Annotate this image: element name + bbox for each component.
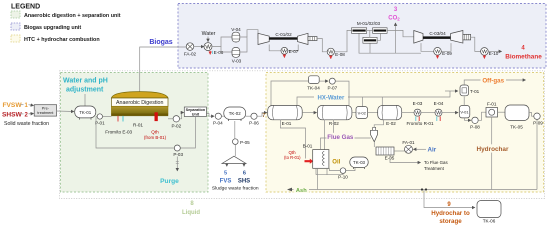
svg-text:FA-01: FA-01 — [402, 140, 415, 145]
blower FA-01 — [402, 140, 415, 153]
wire splitter outlets — [227, 164, 244, 167]
shaft C-03/04 — [423, 31, 451, 39]
vessel V-04 — [231, 27, 241, 42]
wire R-02 to V-02 — [352, 112, 356, 114]
svg-text:LEGEND: LEGEND — [11, 4, 40, 11]
anaerobic digestion + separation unit box — [61, 73, 209, 193]
vessel E-02 — [378, 105, 402, 125]
wire to E-10 — [471, 37, 481, 51]
svg-text:Anaerobic digestion + separati: Anaerobic digestion + separation unit — [24, 13, 121, 19]
reactor R-01 label band — [111, 98, 168, 106]
svg-text:TK-05: TK-05 — [510, 125, 523, 130]
svg-text:P-09: P-09 — [533, 121, 543, 126]
svg-text:Purge: Purge — [160, 178, 179, 185]
heat exchanger E-09 — [434, 48, 453, 59]
wire E-05 to FA-01 — [394, 150, 404, 152]
svg-text:V-04: V-04 — [231, 27, 241, 32]
svg-text:storage: storage — [439, 218, 462, 225]
wire CO2 permeate — [359, 23, 421, 53]
wire ash and bottom manifold — [287, 117, 537, 191]
tank TK-06 — [477, 201, 501, 224]
svg-text:T-01: T-01 — [470, 89, 480, 94]
svg-text:R-01: R-01 — [133, 123, 143, 128]
pump P-10 — [338, 168, 348, 180]
svg-text:Unit: Unit — [192, 113, 200, 117]
svg-text:Anaerobic Digestion: Anaerobic Digestion — [116, 100, 163, 106]
svg-text:Biogas: Biogas — [149, 39, 172, 46]
heat exchanger E-07 — [281, 47, 299, 57]
svg-text:P-01: P-01 — [95, 121, 105, 126]
node Ash — [294, 186, 310, 194]
heat exchanger E-08 — [327, 48, 345, 58]
svg-text:FVSW: FVSW — [3, 102, 23, 109]
svg-text:P-07: P-07 — [327, 85, 337, 90]
node junctions — [421, 188, 427, 190]
node 8 Liquid — [182, 201, 200, 216]
tank TK-02 — [224, 107, 246, 121]
node 4 Biomethane — [505, 46, 542, 61]
svg-text:From/to E-03: From/to E-03 — [105, 130, 132, 135]
svg-text:F-01: F-01 — [487, 102, 497, 107]
svg-text:Hydrochar: Hydrochar — [477, 146, 509, 153]
wire HX-Water loop — [297, 91, 450, 107]
svg-text:treatment: treatment — [37, 111, 54, 115]
expander outlet C-01/02 — [308, 37, 317, 41]
wire P-10 to B-01 — [316, 168, 343, 174]
wire arrow into T-01 — [445, 90, 458, 92]
node Oil — [332, 159, 340, 165]
node Flue Gas — [327, 133, 355, 141]
svg-text:Separation: Separation — [186, 108, 206, 112]
node Biogas — [149, 39, 172, 46]
svg-text:Off-gas: Off-gas — [482, 78, 504, 85]
node R-01 label — [133, 123, 143, 128]
svg-text:E-04: E-04 — [434, 101, 444, 106]
svg-text:Qth: Qth — [151, 130, 159, 135]
wire to membranes — [334, 30, 351, 51]
tank TK-03 — [350, 157, 368, 169]
wire purge — [176, 157, 179, 171]
heat exchanger E-03 — [413, 101, 423, 121]
svg-text:E-03: E-03 — [413, 101, 423, 106]
wire E-01 bottom heat line to B-01 — [280, 120, 305, 159]
node Water — [202, 31, 216, 42]
wire E-01 to R-02 — [302, 112, 316, 114]
wire Air into FA-01 — [414, 148, 427, 150]
svg-text:FVS: FVS — [220, 179, 232, 185]
heat exchanger E-04 — [434, 101, 444, 121]
svg-text:Water and pH: Water and pH — [63, 78, 108, 85]
vessel V-03 — [232, 48, 242, 64]
boiler B-01 — [303, 144, 329, 169]
cyclone — [371, 127, 378, 141]
LEGEND — [11, 4, 121, 44]
wire sep unit to P-04 — [206, 114, 214, 117]
compressor C-03/04 stage 2 — [451, 31, 463, 44]
vessel V-01 — [459, 106, 470, 118]
svg-text:TK-06: TK-06 — [483, 219, 496, 224]
tank TK-05 — [505, 105, 529, 130]
node Water and pH adjustment — [63, 78, 108, 94]
node Air — [428, 147, 437, 154]
svg-text:Air: Air — [428, 147, 437, 154]
pump P-03 — [173, 145, 183, 157]
node SHSW stream 2 — [2, 111, 34, 118]
svg-text:M-01/02/03: M-01/02/03 — [357, 21, 381, 26]
svg-text:Sludge waste fraction: Sludge waste fraction — [212, 185, 259, 191]
outer plant boundary — [60, 71, 545, 199]
wire cyclone top to E-02 bottom — [374, 120, 383, 128]
svg-text:E-10: E-10 — [489, 51, 499, 56]
compressor C-01/02 stage 2 — [298, 33, 309, 44]
wire to E-08 — [317, 39, 327, 52]
svg-text:adjustment: adjustment — [66, 87, 104, 94]
svg-text:E-07: E-07 — [289, 49, 299, 54]
wire flue gas riser — [321, 138, 371, 150]
expander outlet C-03/04 — [463, 34, 471, 40]
heat exchanger E-10 — [481, 48, 499, 59]
filter F-01 — [486, 102, 498, 117]
compressor C-01/02 stage 1 — [258, 33, 269, 44]
node To Flue Gas Treatment — [424, 160, 448, 171]
svg-text:HX-Water: HX-Water — [318, 95, 345, 101]
pump P-06 — [246, 113, 260, 125]
wire TK-03 to P-10 — [346, 167, 355, 170]
svg-text:E-02: E-02 — [386, 121, 396, 126]
svg-text:TK-02: TK-02 — [229, 111, 242, 116]
svg-text:C-03/04: C-03/04 — [429, 31, 446, 36]
wire F-01 to TK-05 — [498, 111, 506, 113]
svg-text:7: 7 — [262, 113, 265, 119]
wire TK-02 bottom to P-05 — [234, 121, 236, 139]
svg-text:SHSW: SHSW — [2, 111, 23, 118]
reactor R-02 — [317, 105, 352, 125]
wire split to V-04 / V-03 — [212, 37, 232, 52]
wire cyclone bottom to E-05 — [373, 142, 375, 147]
wire rejoin and to compressor — [240, 30, 258, 52]
svg-text:Solid waste fraction: Solid waste fraction — [4, 121, 49, 127]
node Purge — [160, 178, 179, 185]
wire V-02 to E-02 — [368, 112, 378, 114]
reactor R-01 anaerobic digester dome — [111, 92, 168, 98]
node Qth to R-01 (red heat arrow) — [284, 150, 313, 164]
wire water into TK-01 — [84, 94, 86, 106]
wire to flue gas treatment — [390, 155, 421, 163]
wire TK-04 feed line — [271, 81, 308, 105]
svg-text:V-02: V-02 — [358, 110, 367, 115]
wire intercooler loop C-03/04 — [421, 43, 451, 51]
wire — [194, 46, 204, 48]
svg-text:(to R-01): (to R-01) — [284, 155, 301, 160]
wire biogas riser from digester — [140, 47, 187, 92]
svg-text:Ash: Ash — [296, 188, 307, 194]
svg-text:V-03: V-03 — [232, 59, 242, 64]
svg-text:Treatment: Treatment — [424, 166, 445, 171]
svg-text:CO2: CO2 — [388, 16, 400, 22]
column T-01 — [460, 85, 480, 96]
heat exchanger E-06 — [204, 43, 224, 55]
biogas upgrading unit box — [178, 4, 546, 69]
pump P-02 — [168, 113, 184, 129]
svg-text:Hydrochar to: Hydrochar to — [431, 210, 470, 217]
svg-text:P-05: P-05 — [240, 140, 250, 145]
vessel V-02 — [356, 107, 368, 119]
svg-text:Oil: Oil — [332, 159, 340, 165]
wire pre-treatment to TK-01 — [57, 110, 74, 113]
tank TK-04 — [307, 76, 320, 91]
node 5 FVS — [220, 171, 232, 185]
node Qth from B-01 (red heat arrow) — [144, 112, 167, 140]
compressor C-03/04 stage 1 — [414, 31, 423, 44]
node HX-Water — [314, 94, 348, 102]
svg-text:Biomethane: Biomethane — [505, 54, 542, 61]
wire stream 7 into E-01 — [257, 113, 267, 117]
wire biomethane out — [488, 50, 501, 52]
svg-text:Liquid: Liquid — [182, 210, 200, 216]
membrane M-02 — [373, 28, 388, 34]
wire From/to E-03 ticks — [105, 116, 132, 135]
wire retentate to C-03/04 — [387, 30, 414, 36]
svg-text:P-06: P-06 — [249, 121, 259, 126]
wire off-gas — [464, 80, 525, 85]
wire E-03 to E-04 — [421, 112, 435, 114]
svg-text:E-06: E-06 — [214, 50, 224, 55]
pre-treatment unit — [34, 105, 56, 116]
tank TK-01 — [75, 106, 96, 120]
svg-text:5: 5 — [224, 171, 227, 177]
svg-text:P-03: P-03 — [173, 152, 183, 157]
splitter triangle — [222, 156, 246, 163]
node 9 Hydrochar to storage — [431, 202, 470, 225]
svg-text:TK-04: TK-04 — [307, 85, 320, 90]
svg-text:V-01: V-01 — [460, 110, 469, 115]
pump P-07 — [319, 78, 349, 105]
air heater E-05 — [376, 147, 395, 161]
svg-text:Pre-: Pre- — [42, 106, 50, 110]
node 3 CO2 — [388, 7, 400, 22]
HTC + hydrochar combustion box — [266, 73, 544, 193]
node 7 — [262, 113, 265, 119]
wire E-02 to E-03 — [402, 112, 414, 114]
svg-text:To Flue Gas: To Flue Gas — [424, 160, 448, 165]
svg-text:TK-03: TK-03 — [353, 160, 366, 165]
svg-text:E-08: E-08 — [335, 52, 345, 57]
svg-text:R-02: R-02 — [329, 121, 339, 126]
node Sludge waste fraction — [212, 185, 259, 191]
node Solid waste fraction — [4, 121, 49, 127]
svg-text:Biogas upgrading unit: Biogas upgrading unit — [24, 25, 81, 31]
wire intercooler loop — [269, 45, 298, 51]
svg-text:(from B-01): (from B-01) — [144, 135, 167, 140]
svg-text:FA-02: FA-02 — [184, 52, 197, 57]
wire membrane interconnects — [367, 30, 381, 40]
svg-text:E-09: E-09 — [442, 51, 452, 56]
membrane M-01 — [352, 28, 367, 34]
wire E-04 to V-01 — [442, 112, 458, 114]
separation unit — [184, 107, 206, 117]
svg-text:Water: Water — [202, 31, 216, 37]
reactor R-01 body — [111, 106, 168, 116]
node 6 SHS — [238, 171, 250, 185]
wire R-02 bottoms — [325, 120, 334, 150]
vessel E-01 — [268, 105, 303, 125]
wire V-01 to P-08 — [465, 118, 471, 120]
svg-text:E-01: E-01 — [282, 121, 292, 126]
wire V-01 to T-01 — [463, 97, 465, 106]
pump P-08 — [470, 112, 486, 129]
svg-text:Flue Gas: Flue Gas — [327, 134, 354, 141]
svg-text:C-01/02: C-01/02 — [275, 32, 292, 37]
shaft C-01/02 — [269, 32, 297, 40]
svg-text:6: 6 — [243, 171, 246, 177]
svg-text:SHS: SHS — [238, 179, 250, 185]
node M-01/02/03 label — [357, 21, 381, 26]
membrane M-03 — [363, 37, 377, 43]
node From/to R-01 — [406, 121, 434, 126]
svg-text:P-04: P-04 — [213, 121, 223, 126]
svg-text:HTC + hydrochar combustion: HTC + hydrochar combustion — [24, 37, 100, 43]
wire separation unit liquid down — [96, 117, 195, 149]
pump P-09 — [529, 113, 543, 126]
pump P-05 — [233, 139, 251, 156]
pump P-01 — [95, 114, 111, 126]
svg-text:B-01: B-01 — [303, 144, 313, 149]
pump P-04 — [213, 113, 224, 125]
node FVSW stream 1 — [3, 102, 34, 109]
wire hydrochar to storage — [424, 190, 475, 208]
svg-text:From/to R-01: From/to R-01 — [406, 121, 434, 126]
node Hydrochar — [475, 144, 512, 153]
svg-text:P-02: P-02 — [171, 123, 181, 128]
node Off-gas — [481, 76, 507, 84]
svg-text:TK-01: TK-01 — [79, 110, 92, 115]
svg-text:P-08: P-08 — [470, 124, 480, 129]
blower FA-02 — [184, 43, 197, 57]
